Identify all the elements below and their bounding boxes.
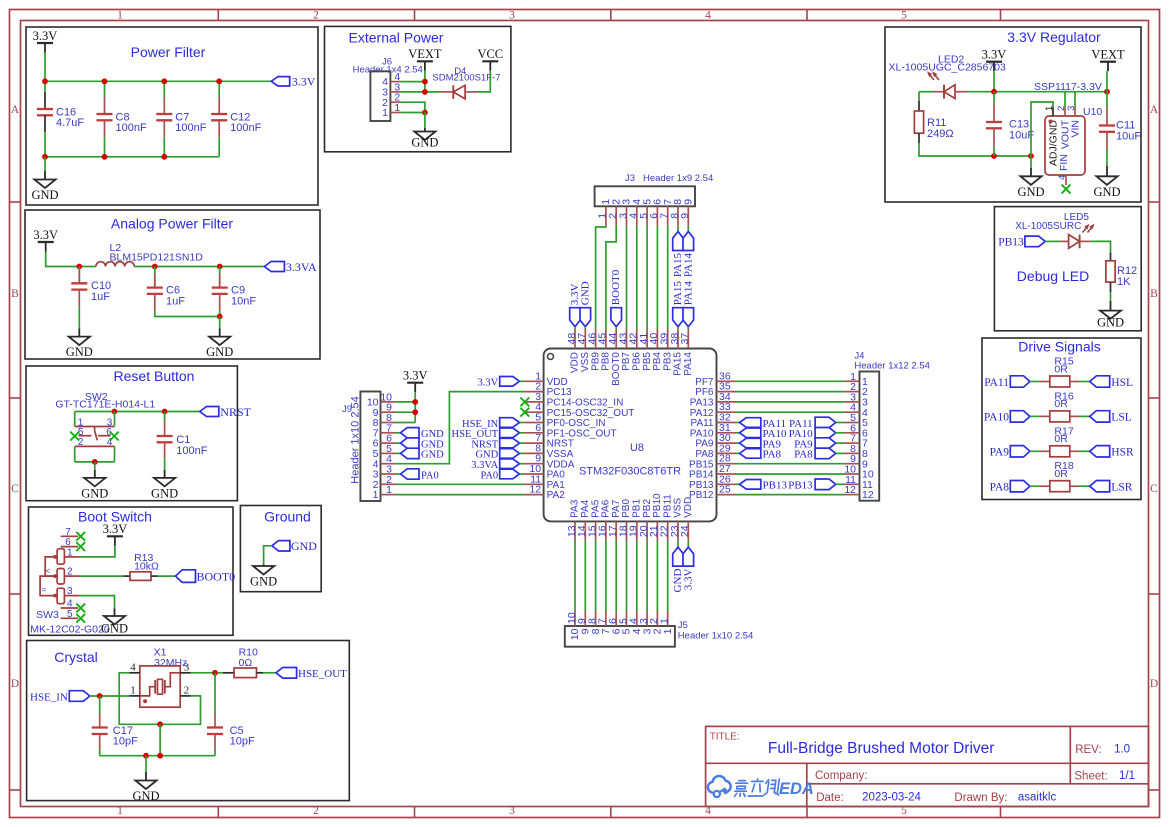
ground bbox=[250, 566, 277, 589]
svg-text:VCC: VCC bbox=[477, 47, 503, 61]
connector J3 bbox=[595, 186, 695, 206]
wire C17 bottom bbox=[99, 749, 101, 756]
block box Analog Power Filter bbox=[25, 210, 320, 359]
resistor R16 right pin bbox=[1070, 415, 1080, 417]
wire R12 to gnd bbox=[1110, 292, 1112, 301]
U8 pin 32 stub bbox=[717, 422, 737, 424]
frame tick left bbox=[10, 593, 21, 595]
capacitor C5 bbox=[207, 714, 255, 750]
wire C17 top bbox=[99, 696, 101, 714]
wire U8 pin 21 to J5 bbox=[656, 541, 658, 611]
wire J3 pin2 to U8 pin45 bbox=[606, 226, 616, 329]
svg-text:STM32F030C8T6TR: STM32F030C8T6TR bbox=[579, 466, 681, 478]
wire gnd stem bbox=[145, 756, 147, 772]
wire VDD to 3.3V flag bbox=[687, 541, 689, 547]
svg-text:2: 2 bbox=[313, 805, 319, 817]
port 3.3V (pin24) bbox=[682, 547, 694, 590]
SW3 pin4 stub bbox=[61, 607, 78, 609]
svg-text:PA8: PA8 bbox=[990, 482, 1010, 494]
wire cap bottom bbox=[104, 137, 106, 157]
wire C10 bottom bbox=[78, 307, 80, 329]
port PA0 (left) bbox=[480, 469, 519, 481]
svg-text:3.3V: 3.3V bbox=[33, 29, 58, 43]
led LED2 arrows bbox=[927, 71, 939, 80]
capacitor C17 bbox=[92, 714, 138, 750]
led LED2 lead left bbox=[933, 91, 944, 93]
J3 pin 4 stub bbox=[636, 206, 638, 226]
port PA11 (to J4) bbox=[789, 417, 836, 430]
no-connect pin3 bbox=[520, 398, 529, 407]
resistor R12 bbox=[1106, 261, 1137, 288]
frame tick top bbox=[806, 10, 808, 21]
resistor R18 left pin bbox=[1040, 485, 1050, 487]
J4 pin 11 stub bbox=[845, 483, 860, 485]
U10 pin1 stub bbox=[1052, 108, 1054, 117]
svg-text:0R: 0R bbox=[1054, 363, 1068, 375]
wire BOOT0 flag bbox=[615, 327, 617, 329]
resistor R11 bbox=[914, 111, 953, 140]
logo JLC EDA bbox=[708, 776, 814, 798]
diode D4 bbox=[440, 85, 478, 99]
svg-text:PA14: PA14 bbox=[682, 253, 694, 278]
wire C11 bottom bbox=[1106, 150, 1108, 166]
J3 pin 5 stub bbox=[646, 206, 648, 226]
SW3 contact dot bbox=[53, 555, 57, 559]
wire J3 pin 6 down bbox=[656, 226, 658, 329]
svg-text:GND: GND bbox=[291, 539, 317, 553]
frame tick bottom bbox=[414, 807, 416, 818]
wire J3 pin8 to flag bbox=[677, 226, 679, 232]
wire 3.3VA pin bbox=[520, 463, 525, 465]
svg-text:3: 3 bbox=[509, 805, 515, 817]
svg-text:D: D bbox=[1150, 678, 1158, 690]
svg-text:U8: U8 bbox=[630, 442, 644, 454]
wire port to res bbox=[1030, 415, 1040, 417]
port NRST bbox=[200, 405, 252, 419]
capacitor C9 bbox=[212, 274, 257, 311]
svg-text:B: B bbox=[11, 288, 19, 300]
port GND (J9) bbox=[401, 438, 445, 451]
port BOOT0 bbox=[176, 569, 236, 583]
resistor R16 left pin bbox=[1040, 415, 1050, 417]
wire gnd stem dark bbox=[44, 171, 46, 180]
SW3 pin1 stub bbox=[64, 556, 79, 558]
svg-text:Ground: Ground bbox=[264, 509, 311, 525]
wire C10 gnd dark bbox=[78, 328, 80, 336]
resistor R17 right pin bbox=[1070, 450, 1080, 452]
wire pin4 to VEXT bbox=[401, 81, 425, 83]
U8 pin 22 stub bbox=[667, 521, 669, 541]
svg-text:3: 3 bbox=[509, 10, 515, 22]
ground bbox=[66, 337, 93, 360]
capacitor C16 bbox=[37, 92, 84, 132]
J4 pin 4 stub bbox=[845, 411, 860, 413]
port PA14 (pin37) bbox=[682, 281, 694, 327]
wire R13 right pin bbox=[151, 575, 158, 577]
switch SW3 body3 bbox=[57, 588, 64, 604]
wire pin3 to R10 bbox=[191, 672, 224, 674]
J4 pin 10 stub bbox=[845, 473, 860, 475]
no-connect pin6 bbox=[110, 432, 119, 441]
svg-text:2: 2 bbox=[313, 10, 319, 22]
frame tick bottom bbox=[610, 807, 612, 818]
junction bbox=[42, 154, 48, 160]
svg-text:HSE_IN: HSE_IN bbox=[30, 691, 68, 703]
svg-text:Sheet:: Sheet: bbox=[1074, 771, 1107, 783]
svg-text:C: C bbox=[1150, 483, 1158, 495]
U8 pin 18 stub bbox=[626, 521, 628, 541]
power flag VCC bbox=[477, 47, 503, 71]
U8 pin 41 stub bbox=[646, 329, 648, 349]
junction bbox=[143, 753, 149, 759]
svg-text:VIN: VIN bbox=[1070, 120, 1082, 138]
svg-text:1K: 1K bbox=[1117, 276, 1131, 288]
wire U8 pin 15 to J5 bbox=[595, 541, 597, 611]
svg-text:SSP1117-3.3V: SSP1117-3.3V bbox=[1034, 81, 1102, 93]
frame tick left bbox=[10, 789, 21, 791]
J3 pin 7 stub bbox=[667, 206, 669, 226]
power flag 3.3V bbox=[982, 48, 1007, 72]
no-connect pin7 bbox=[76, 532, 85, 541]
wire U8 pin 16 to J5 bbox=[605, 541, 607, 611]
capacitor C8 bbox=[97, 97, 147, 137]
J5 pin 1 stub bbox=[667, 611, 669, 626]
J4 pin 8 stub bbox=[845, 452, 860, 454]
svg-text:GT-TC171E-H014-L1: GT-TC171E-H014-L1 bbox=[55, 399, 155, 411]
SW3 bracket 1-2 bbox=[45, 557, 57, 576]
wire GND flag bbox=[584, 327, 586, 329]
svg-text:9: 9 bbox=[679, 213, 691, 219]
wire gnd stem bbox=[424, 113, 426, 129]
led LED5 arrows bbox=[1083, 224, 1095, 233]
J5 pin 7 stub bbox=[605, 611, 607, 626]
svg-text:2: 2 bbox=[184, 684, 190, 696]
wire cap top bbox=[104, 81, 106, 97]
SW3 contact dot bbox=[53, 574, 57, 578]
svg-text:4: 4 bbox=[705, 10, 711, 22]
U8 pin 17 stub bbox=[615, 521, 617, 541]
svg-text:Company:: Company: bbox=[815, 770, 867, 782]
U8 pin 46 stub bbox=[595, 329, 597, 349]
resistor R18 bbox=[1050, 481, 1070, 492]
J5 pin 5 stub bbox=[626, 611, 628, 626]
block box Power Filter bbox=[26, 27, 318, 205]
U8 pin 20 stub bbox=[646, 521, 648, 541]
ground bbox=[1097, 311, 1124, 330]
port PA10 bbox=[984, 411, 1030, 424]
U8 pin 42 stub bbox=[636, 329, 638, 349]
U8 pin 5 stub bbox=[524, 422, 544, 424]
wire gnd stem dark bbox=[145, 772, 147, 781]
svg-text:GND: GND bbox=[421, 450, 444, 461]
svg-text:REV:: REV: bbox=[1075, 744, 1101, 756]
wire pin2 jog bbox=[401, 102, 425, 112]
port 3.3V (pin48) bbox=[569, 283, 581, 326]
J3 pin 3 stub bbox=[626, 206, 628, 226]
X1 pin2 stub bbox=[180, 695, 190, 697]
wire C11 gnd dark bbox=[1106, 166, 1108, 176]
junction bbox=[422, 110, 428, 116]
svg-text:GND: GND bbox=[151, 486, 178, 500]
junction bbox=[216, 78, 222, 84]
frame tick bottom bbox=[217, 807, 219, 818]
U8 pin 9 stub bbox=[524, 463, 544, 465]
wire gnd stem bbox=[94, 462, 96, 470]
U8 pin 36 stub bbox=[717, 380, 737, 382]
port HSE_OUT (left) bbox=[452, 428, 520, 440]
svg-text:100nF: 100nF bbox=[175, 122, 206, 134]
resistor R13 bbox=[130, 572, 151, 581]
svg-text:Power Filter: Power Filter bbox=[131, 44, 206, 60]
wire 3.3V stem bbox=[414, 392, 416, 422]
wire R10 to port bbox=[263, 672, 276, 674]
wire gnd stem dark bbox=[219, 328, 221, 336]
title block divider v logo bbox=[806, 763, 808, 806]
U8 pin 14 stub bbox=[584, 521, 586, 541]
svg-text:PB13: PB13 bbox=[788, 480, 813, 492]
capacitor C13 bbox=[986, 104, 1034, 146]
wire pin3 to diode bbox=[401, 91, 441, 93]
wire PB13 to LED bbox=[1045, 240, 1060, 242]
J4 pin 2 stub bbox=[845, 391, 860, 393]
wire J9 pin4 bbox=[396, 392, 525, 464]
ground bbox=[101, 616, 128, 635]
resistor R15 bbox=[1050, 376, 1070, 387]
wire C6 top bbox=[154, 267, 156, 288]
wire pin4 loop bbox=[119, 673, 160, 725]
wire J3 pin 5 down bbox=[646, 226, 648, 329]
U8 pin 48 stub bbox=[574, 329, 576, 349]
svg-text:1.0: 1.0 bbox=[1114, 744, 1130, 756]
U10 pin2 stub bbox=[1064, 108, 1066, 117]
wire U8 to flag PA8 bbox=[736, 452, 740, 454]
svg-text:1uF: 1uF bbox=[91, 291, 110, 303]
port PB13 (to J4) bbox=[788, 479, 835, 492]
wire C13 bottom bbox=[993, 146, 995, 156]
svg-text:FIN: FIN bbox=[1058, 154, 1070, 171]
power flag 3.3V bbox=[33, 228, 58, 252]
junction bbox=[217, 264, 223, 270]
port NRST (left) bbox=[471, 438, 519, 450]
wire R10 left pin bbox=[223, 672, 234, 674]
junction bbox=[161, 78, 167, 84]
wire R11 to rail bbox=[919, 143, 1031, 156]
svg-text:4: 4 bbox=[130, 662, 136, 674]
wire J3 pin9 to flag bbox=[687, 226, 689, 232]
wire ADJ loop bbox=[1031, 102, 1053, 156]
svg-text:Date:: Date: bbox=[816, 792, 844, 804]
svg-text:PA14: PA14 bbox=[683, 352, 694, 376]
svg-text:LSL: LSL bbox=[1111, 412, 1131, 424]
wire 3.3V stem bbox=[993, 71, 995, 92]
capacitor C1 bbox=[157, 421, 208, 458]
junction bbox=[92, 459, 98, 465]
wire C5 top bbox=[214, 673, 216, 714]
svg-text:100nF: 100nF bbox=[230, 122, 261, 134]
wire U8 to J4 pin 9 bbox=[736, 463, 845, 465]
svg-text:Drawn By:: Drawn By: bbox=[954, 792, 1007, 804]
led LED2 bbox=[944, 85, 955, 99]
wire U8 to J4 pin 2 bbox=[736, 391, 845, 393]
J9 pin 7 stub bbox=[381, 432, 396, 434]
wire U8 to flag PA9 bbox=[736, 442, 740, 444]
title block divider v rev bbox=[1069, 726, 1071, 783]
wire J9 pin8 bbox=[396, 422, 416, 424]
U8 pin 44 stub bbox=[615, 329, 617, 349]
port PA9 bbox=[990, 446, 1030, 459]
wire 3.3V to pin1 bbox=[80, 546, 115, 557]
wire cap top bbox=[163, 81, 165, 97]
J6 pin 3 stub bbox=[390, 91, 400, 93]
block box Drive Signals bbox=[982, 338, 1141, 500]
X1 pin4 stub bbox=[130, 672, 140, 674]
wire U8 to flag PA10 bbox=[736, 432, 740, 434]
port 3.3VA (left) bbox=[471, 459, 519, 471]
U8 pin 16 stub bbox=[605, 521, 607, 541]
wire GND port bbox=[264, 546, 272, 565]
U8 pin 4 stub bbox=[524, 411, 544, 413]
svg-text:24: 24 bbox=[679, 525, 691, 537]
connector J6 bbox=[370, 71, 390, 121]
U8 pin 29 stub bbox=[717, 452, 737, 454]
svg-text:PA0: PA0 bbox=[480, 470, 498, 481]
J9 pin 5 stub bbox=[381, 452, 396, 454]
U8 pin 39 stub bbox=[667, 329, 669, 349]
svg-text:MK-12C02-G020: MK-12C02-G020 bbox=[30, 624, 110, 636]
wire J3 pin1 to U8 pin46 bbox=[596, 226, 606, 329]
port LSL bbox=[1090, 411, 1132, 424]
J5 pin 10 stub bbox=[574, 611, 576, 626]
port PA8 (from U8) bbox=[740, 449, 782, 461]
wire flag to J4 pin bbox=[836, 483, 845, 485]
svg-text:Header 1x10 2.54: Header 1x10 2.54 bbox=[350, 396, 362, 483]
U8 pin 47 stub bbox=[584, 329, 586, 349]
svg-text:PB13: PB13 bbox=[763, 480, 788, 492]
J4 pin 9 stub bbox=[845, 463, 860, 465]
wire J3 pin 3 down bbox=[626, 226, 628, 329]
svg-text:HSL: HSL bbox=[1111, 377, 1133, 389]
port GND (pin23) bbox=[672, 547, 684, 592]
port 3.3VA bbox=[264, 260, 317, 274]
svg-text:Analog Power Filter: Analog Power Filter bbox=[111, 216, 234, 232]
U8 pin 40 stub bbox=[656, 329, 658, 349]
J5 pin 4 stub bbox=[636, 611, 638, 626]
wire port to res bbox=[1030, 381, 1040, 383]
U8 pin 30 stub bbox=[717, 442, 737, 444]
wire VOUT up bbox=[1064, 92, 1066, 108]
wire J9 gnd pin bbox=[396, 452, 401, 454]
U8 pin 25 stub bbox=[717, 494, 737, 496]
junction bbox=[412, 409, 418, 415]
wire C13 top bbox=[993, 92, 995, 104]
wire C5 bottom bbox=[214, 749, 216, 756]
ground bbox=[132, 781, 159, 804]
no-connect pin4 bbox=[76, 604, 85, 613]
svg-text:5: 5 bbox=[901, 10, 907, 22]
junction bbox=[157, 721, 163, 727]
U8 pin 3 stub bbox=[524, 401, 544, 403]
junction bbox=[152, 264, 158, 270]
svg-text:4.7uF: 4.7uF bbox=[56, 117, 84, 129]
port PA14 (J3) bbox=[682, 232, 694, 278]
wire C6 bottom bbox=[155, 311, 220, 317]
junction bbox=[102, 154, 108, 160]
U8 pin 38 stub bbox=[677, 329, 679, 349]
U8 pin 26 stub bbox=[717, 483, 737, 485]
port HSL bbox=[1090, 376, 1133, 389]
port PB13 bbox=[998, 236, 1045, 249]
switch SW3 pin6 stub bbox=[61, 546, 78, 548]
svg-text:C: C bbox=[11, 483, 19, 495]
J5 pin 8 stub bbox=[595, 611, 597, 626]
power flag 3.3V bbox=[33, 29, 58, 53]
svg-text:VEXT: VEXT bbox=[1091, 48, 1125, 62]
port PB13 (from U8) bbox=[740, 480, 788, 492]
wire GND pin bbox=[520, 452, 525, 454]
port HSE_OUT bbox=[276, 668, 347, 681]
regulator U10 body bbox=[1045, 116, 1085, 175]
title block divider h2 bbox=[807, 783, 1149, 785]
svg-text:5: 5 bbox=[67, 609, 73, 620]
J9 pin 2 stub bbox=[381, 483, 396, 485]
X1 pin1 stub bbox=[130, 695, 140, 697]
U8 pin 8 stub bbox=[524, 452, 544, 454]
svg-text:GND: GND bbox=[206, 345, 233, 359]
wire R13 to BOOT0 bbox=[158, 575, 176, 577]
junction bbox=[76, 264, 82, 270]
junction bbox=[212, 670, 218, 676]
J3 pin 9 stub bbox=[687, 206, 689, 226]
svg-text:GND: GND bbox=[81, 486, 108, 500]
U10 pin3 stub bbox=[1074, 108, 1076, 117]
wire LED to R12 bbox=[1091, 241, 1111, 252]
no-connect pin5 bbox=[70, 432, 79, 441]
svg-text:0R: 0R bbox=[1054, 398, 1068, 410]
svg-text:1: 1 bbox=[373, 489, 379, 501]
wire HSE_OUT pin bbox=[520, 432, 525, 434]
wire VEXT stem bbox=[424, 71, 426, 92]
wire U8 to J4 pin 4 bbox=[736, 411, 845, 413]
wire VIN up bbox=[1074, 92, 1076, 108]
wire flag to J4 pin bbox=[836, 442, 845, 444]
wire bottom rail bbox=[100, 755, 216, 757]
junction bbox=[161, 154, 167, 160]
port PA0 (J9) bbox=[401, 469, 439, 482]
wire R12 bottom pin bbox=[1110, 282, 1112, 292]
port BOOT0 (pin44) bbox=[610, 269, 622, 326]
svg-text:1: 1 bbox=[659, 618, 671, 624]
svg-text:PA2: PA2 bbox=[547, 490, 566, 501]
wire R10 right pin bbox=[257, 672, 264, 674]
U8 pin 1 stub bbox=[524, 380, 544, 382]
U8 pin 33 stub bbox=[717, 411, 737, 413]
svg-text:12: 12 bbox=[529, 484, 541, 496]
wire cap bottom bbox=[218, 137, 220, 157]
no-connect pin6 bbox=[76, 542, 85, 551]
J3 pin 1 stub bbox=[605, 206, 607, 226]
svg-text:GND: GND bbox=[579, 281, 591, 305]
svg-text:PB13: PB13 bbox=[998, 237, 1024, 249]
SW3 pin5 stub bbox=[61, 617, 78, 619]
wire res to port bbox=[1080, 485, 1090, 487]
svg-text:Crystal: Crystal bbox=[54, 649, 98, 665]
U8 pin 10 stub bbox=[524, 473, 544, 475]
U8 pin 27 stub bbox=[717, 473, 737, 475]
resistor R17 left pin bbox=[1040, 450, 1050, 452]
junction bbox=[42, 78, 48, 84]
switch SW2 bbox=[75, 412, 115, 462]
U8 pin 45 stub bbox=[605, 329, 607, 349]
